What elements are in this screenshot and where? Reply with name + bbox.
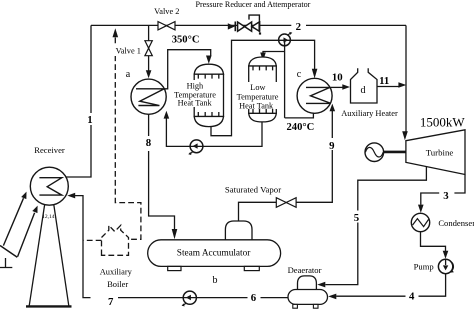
- wire line 10 HX c to aux heater: [330, 86, 343, 88]
- heliostat ray arrow 2: [18, 206, 38, 257]
- wire LT bottom line through mid pump to HX a: [166, 119, 262, 147]
- tower base: [26, 305, 72, 307]
- wire 240C return from HX c bottom: [285, 113, 314, 118]
- wire line 9 sat vapor riser to HX c: [296, 111, 332, 203]
- wire line 11 aux heater to turbine feed: [377, 86, 399, 88]
- wire line 1 left vertical into receiver: [66, 25, 91, 177]
- arrow mid line up into HX a: [164, 111, 170, 119]
- svg-text:Temperature: Temperature: [237, 92, 279, 101]
- pressure reducer and attemperator assembly: [228, 15, 261, 35]
- valve 1: [145, 41, 152, 56]
- steam accumulator feet: [168, 266, 181, 270]
- svg-text:Heat Tank: Heat Tank: [178, 99, 213, 108]
- arrow valve1 into HX a: [146, 70, 152, 78]
- arrow into HX c top: [312, 69, 318, 79]
- wire valve1 branch down to HX a: [148, 25, 150, 71]
- high temperature heat tank: [194, 64, 223, 126]
- wire HT tank bottom to top pump and to HX c top: [211, 40, 315, 135]
- arrow line7 into receiver: [67, 193, 75, 199]
- arrow up into top line from dashed: [113, 28, 119, 37]
- svg-text:Heat Tank: Heat Tank: [239, 101, 274, 110]
- wire top main line: [91, 24, 406, 26]
- label backgrounds for numbered streams: [85, 21, 454, 307]
- generator: [365, 143, 384, 162]
- heliostat ray arrow 1: [3, 192, 26, 246]
- svg-text:350°C: 350°C: [172, 34, 200, 45]
- heliostat stand: [0, 258, 12, 268]
- heat exchanger a: [131, 79, 166, 114]
- svg-text:High: High: [187, 82, 204, 91]
- svg-text:8: 8: [146, 137, 152, 149]
- svg-text:Condenser: Condenser: [438, 218, 474, 228]
- svg-text:Pump: Pump: [414, 261, 434, 271]
- svg-text:2: 2: [296, 21, 301, 33]
- wire line 5 turbine extraction to deaerator dome: [325, 167, 426, 285]
- svg-text:Auxiliary: Auxiliary: [100, 267, 133, 276]
- arrow into turbine inlet: [402, 131, 408, 140]
- svg-text:Saturated Vapor: Saturated Vapor: [225, 185, 281, 195]
- heat exchanger c: [297, 78, 332, 113]
- wire HX a bottom line 8 to accumulator: [149, 114, 175, 229]
- svg-text:Receiver: Receiver: [34, 145, 65, 155]
- svg-text:Pressure Reducer and Attempera: Pressure Reducer and Attemperator: [195, 0, 310, 9]
- arrow line11 into turbine feed: [398, 82, 406, 88]
- wire bottom line 6 7 deaerator to riser: [75, 196, 288, 298]
- condenser: [411, 213, 429, 231]
- arrow into LT tank top: [260, 53, 266, 62]
- svg-text:4: 4: [409, 291, 415, 303]
- wire top pump down-branch to 240C line and LT tank top: [263, 40, 285, 118]
- arrow condenser into right pump: [443, 251, 449, 259]
- pump bottom (feedwater pump): [182, 291, 197, 306]
- saturated vapor valve: [276, 198, 296, 208]
- svg-text:11: 11: [379, 75, 389, 87]
- turbine shaft: [383, 151, 406, 154]
- svg-text:Low: Low: [250, 83, 265, 92]
- svg-text:Deaerator: Deaerator: [288, 265, 322, 275]
- svg-text:1: 1: [87, 114, 92, 126]
- receiver: [30, 167, 68, 205]
- svg-text:6: 6: [251, 292, 257, 304]
- pump top (attemperator pump): [279, 32, 293, 46]
- svg-text:d: d: [361, 85, 366, 96]
- arrow line10 into aux heater: [342, 84, 350, 90]
- svg-text:c: c: [297, 69, 302, 80]
- svg-text:7: 7: [108, 296, 114, 308]
- temperature and power labels: [172, 34, 315, 133]
- stream number labels: [87, 21, 449, 308]
- auxiliary heater d vessel: [351, 68, 378, 103]
- svg-text:240°C: 240°C: [287, 122, 315, 133]
- arrow 350C loop into HT tank: [206, 56, 212, 64]
- equipment letter labels: [126, 69, 366, 286]
- heliostat mirror: [0, 246, 17, 258]
- tower legs: [29, 205, 69, 306]
- wire saturated vapor line to accumulator dome: [239, 202, 277, 221]
- wire condenser to right pump: [421, 232, 446, 251]
- arrow into steam accumulator: [172, 229, 178, 239]
- svg-text:Turbine: Turbine: [426, 147, 454, 157]
- svg-text:Valve 2: Valve 2: [154, 7, 179, 16]
- svg-text:b: b: [213, 275, 218, 286]
- svg-text:5: 5: [354, 212, 359, 224]
- heat tank text with white boxes: [172, 80, 279, 110]
- arrow line4 into deaerator: [328, 294, 336, 300]
- svg-text:a: a: [126, 69, 131, 80]
- steam accumulator tank b: [148, 240, 281, 267]
- wire dashed aux boiler to feed riser: [84, 239, 102, 241]
- arrow line9 into HX c bottom: [330, 104, 336, 112]
- arrow line5 into deaerator dome: [317, 282, 325, 288]
- wire 350C loop from HX a to HT tank top: [164, 50, 210, 89]
- turbine: [406, 130, 465, 175]
- svg-text:1500kW: 1500kW: [420, 115, 466, 130]
- low temperature heat tank: [249, 57, 277, 122]
- auxiliary boiler dashed vessel: [102, 225, 129, 255]
- wire right vertical to turbine: [405, 25, 407, 131]
- steam accumulator dome: [225, 221, 252, 240]
- svg-text:9: 9: [329, 140, 335, 152]
- pump right (condensate pump): [438, 259, 454, 273]
- wire line 4 right pump to deaerator: [336, 274, 445, 296]
- svg-text:Valve 1: Valve 1: [116, 46, 141, 55]
- wire dashed from top line to aux boiler: [115, 38, 141, 240]
- deaerator tank: [288, 290, 328, 305]
- svg-text:3: 3: [443, 190, 449, 202]
- svg-text:Boiler: Boiler: [107, 280, 128, 289]
- svg-text:10: 10: [332, 72, 343, 84]
- wire line 3 turbine to condenser: [421, 175, 465, 205]
- deaerator legs: [293, 304, 298, 308]
- deaerator dome: [298, 276, 317, 290]
- svg-text:12,14: 12,14: [42, 214, 55, 220]
- pump mid (HT circulation pump): [188, 140, 203, 155]
- valve 2: [158, 22, 175, 30]
- arrow line3 into condenser: [418, 205, 424, 213]
- svg-text:Auxiliary Heater: Auxiliary Heater: [341, 109, 398, 118]
- svg-text:Steam Accumulator: Steam Accumulator: [177, 249, 251, 259]
